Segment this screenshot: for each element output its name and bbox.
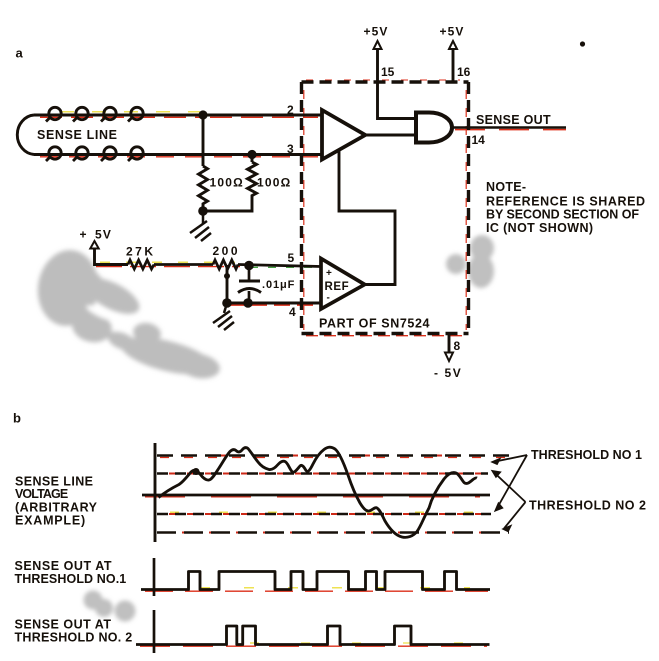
svg-text:SENSE LINE: SENSE LINE	[37, 128, 118, 142]
svg-text:.01μF: .01μF	[262, 279, 295, 291]
svg-text:IC (NOT SHOWN): IC (NOT SHOWN)	[486, 221, 593, 235]
resistor R4 200	[213, 260, 238, 269]
svg-text:NOTE-: NOTE-	[486, 180, 526, 194]
svg-text:+: +	[326, 268, 332, 279]
node junction cap top	[244, 261, 254, 271]
axis graph b	[154, 443, 157, 542]
svg-text:THRESHOLD NO. 2: THRESHOLD NO. 2	[15, 631, 133, 645]
svg-text:THRESHOLD NO.1: THRESHOLD NO.1	[15, 572, 127, 586]
power arrow +5V left	[90, 241, 98, 249]
svg-text:+5V: +5V	[440, 25, 465, 39]
svg-text:(ARBITRARY: (ARBITRARY	[15, 501, 98, 515]
svg-text:27K: 27K	[126, 245, 156, 259]
node junction cap bottom	[243, 298, 253, 308]
wire sense line bottom	[34, 153, 322, 156]
svg-text:15: 15	[381, 65, 395, 79]
svg-text:THRESHOLD NO 2: THRESHOLD NO 2	[529, 499, 646, 513]
ink blob on waveform	[193, 468, 200, 475]
resistor R3 27K	[128, 260, 154, 269]
gray dots near waveform labels	[84, 591, 136, 622]
axis waveform1	[153, 558, 156, 596]
wire bottom to pin4	[227, 302, 321, 305]
wire sense line left U turn	[17, 115, 34, 155]
resistor R1 100ohm	[199, 166, 208, 211]
power arrow +5V pin16	[449, 41, 457, 49]
node junction bottom wire	[247, 150, 256, 159]
threshold line 1 upper	[157, 454, 509, 456]
axis waveform2	[153, 610, 156, 653]
svg-text:b: b	[13, 411, 21, 426]
svg-text:100Ω: 100Ω	[257, 176, 291, 190]
svg-text:THRESHOLD NO 1: THRESHOLD NO 1	[531, 448, 642, 462]
wire pin15	[378, 49, 417, 119]
wire 27K to 200	[154, 263, 213, 266]
scan color fringing	[40, 80, 566, 646]
svg-text:REF: REF	[325, 281, 350, 293]
svg-text:PART OF SN7524: PART OF SN7524	[319, 317, 430, 331]
wire 200 to pin5	[238, 265, 321, 267]
svg-text:+5V: +5V	[364, 25, 389, 39]
waveform analog	[159, 447, 478, 537]
waveform digital 2	[136, 626, 490, 645]
svg-text:2: 2	[287, 103, 294, 117]
wire pin16	[452, 49, 455, 82]
wire from +5V arrow	[95, 249, 129, 265]
resistor R2 100ohm	[203, 162, 257, 211]
comparator U1b REF triangle	[321, 259, 365, 310]
node junction bottom left	[222, 298, 232, 308]
svg-text:- 5V: - 5V	[434, 366, 462, 380]
svg-text:3: 3	[287, 142, 294, 156]
svg-text:100Ω: 100Ω	[210, 176, 244, 190]
gray smudge blob large lower-left	[33, 246, 222, 382]
svg-text:14: 14	[472, 133, 486, 147]
svg-text:+: +	[80, 228, 87, 242]
feedback wire from REF output to U1a	[339, 150, 395, 285]
comparator U1a triangle	[322, 110, 365, 160]
ground G1	[190, 211, 211, 241]
gray smudge near IC right edge	[446, 235, 494, 288]
node dot on vertical wire	[224, 273, 230, 279]
svg-text:BY SECOND SECTION OF: BY SECOND SECTION OF	[486, 208, 639, 222]
threshold line lower long dash	[157, 531, 509, 533]
wire sense line top	[34, 114, 322, 117]
IC dashed box SN7524	[302, 82, 469, 334]
zero line	[142, 494, 490, 497]
svg-text:5V: 5V	[95, 228, 112, 242]
wire comparator out to AND	[365, 134, 416, 137]
threshold line lower short dash	[157, 513, 491, 515]
wire down from bottom junction	[251, 155, 254, 163]
power arrow -5V pin8	[445, 353, 453, 362]
svg-text:SENSE OUT AT: SENSE OUT AT	[15, 618, 112, 632]
sense line coupling loops bottom	[46, 147, 143, 161]
svg-text:VOLTAGE: VOLTAGE	[15, 487, 68, 501]
pin8 wire -5V	[448, 334, 451, 353]
svg-text:SENSE OUT AT: SENSE OUT AT	[15, 559, 113, 573]
svg-text:200: 200	[213, 244, 241, 258]
sense line coupling loops top	[46, 107, 143, 121]
node junction top wire	[198, 110, 207, 119]
ink speck	[580, 41, 585, 46]
wire down from top junction	[202, 115, 205, 166]
waveform digital 1	[141, 572, 490, 590]
power arrow +5V pin15	[374, 41, 382, 49]
svg-text:5: 5	[288, 251, 295, 265]
threshold pointer lines	[493, 455, 528, 531]
svg-text:EXAMPLE): EXAMPLE)	[15, 514, 86, 528]
node common resistor bottom	[198, 206, 208, 216]
svg-text:REFERENCE IS SHARED: REFERENCE IS SHARED	[486, 195, 646, 209]
svg-text:-: -	[327, 293, 330, 304]
ground G2	[213, 303, 234, 330]
svg-text:a: a	[16, 46, 24, 61]
capacitor C1 .01uF	[238, 266, 261, 304]
wire vertical left of cap	[226, 265, 229, 303]
svg-text:8: 8	[454, 339, 461, 353]
svg-text:SENSE OUT: SENSE OUT	[476, 113, 551, 127]
wire sense out	[452, 126, 566, 129]
threshold line 2 upper short dash	[157, 472, 488, 474]
svg-text:4: 4	[289, 305, 296, 319]
AND gate U2	[416, 113, 452, 143]
svg-text:16: 16	[457, 65, 471, 79]
